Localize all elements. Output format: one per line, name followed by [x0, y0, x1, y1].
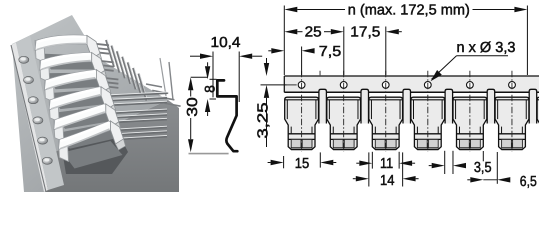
photo: lead group 1: [91, 43, 109, 45]
photo: lead group 4: [105, 93, 167, 96]
centreline clip 5: [469, 71, 471, 152]
svg-text:10,4: 10,4: [211, 35, 241, 51]
photo: rivet band: [16, 36, 64, 191]
photo: comb tail pins: [146, 84, 162, 87]
connector tab 1: [319, 89, 327, 123]
clip 3 outline: [369, 97, 403, 149]
clip 4 foot cells: [417, 139, 427, 148]
photo: plate top face: [12, 15, 168, 192]
svg-text:14: 14: [380, 173, 395, 189]
clip 7 outline: [537, 97, 539, 149]
clip 1 outline: [285, 97, 319, 149]
svg-text:3,5: 3,5: [474, 160, 492, 176]
svg-text:6,5: 6,5: [520, 174, 537, 190]
clip 6 outline: [495, 97, 529, 149]
clip 4 fold and edge lines: [411, 99, 445, 101]
dimension 6,5: [482, 151, 484, 161]
clip 4 outline: [411, 97, 445, 149]
hole 6 (Ø 3,3): [509, 82, 516, 89]
svg-text:25: 25: [305, 25, 322, 41]
photo: clip 2: [40, 60, 50, 82]
hole 5 (Ø 3,3): [467, 82, 474, 89]
clip 7 fold and edge lines: [537, 99, 539, 101]
dimension 15: [283, 156, 285, 168]
photo: plate front face: [46, 100, 179, 192]
svg-text:n x Ø 3,3: n x Ø 3,3: [457, 40, 516, 56]
photo: clip shadow 2: [44, 73, 104, 90]
hole 2 (Ø 3,3): [340, 82, 347, 89]
clip 5 outline: [453, 97, 487, 149]
centreline clip 1: [301, 71, 303, 152]
svg-text:n (max. 172,5 mm): n (max. 172,5 mm): [348, 3, 470, 19]
photo: rivet 4: [33, 117, 43, 124]
pcb ground line: [189, 153, 229, 155]
svg-text:7,5: 7,5: [319, 44, 342, 60]
dimension 14: [368, 152, 370, 186]
clip 3 fold and edge lines: [369, 99, 403, 101]
dimension 17,5: [386, 29, 399, 34]
clip 1 fold and edge lines: [285, 99, 319, 101]
photo: clip shadow 1: [39, 54, 99, 70]
photo: stray pins right: [169, 62, 173, 100]
hole 4 (Ø 3,3): [424, 82, 431, 89]
svg-text:15: 15: [295, 156, 310, 172]
photo: clip 5: [54, 120, 64, 142]
photo: lead group 6: [115, 127, 168, 130]
centreline clip 3: [385, 71, 387, 152]
photo: rivet 3: [28, 97, 38, 104]
svg-text:17,5: 17,5: [350, 25, 380, 41]
photo: rivet 5: [38, 137, 48, 144]
dimension 7,5: [301, 47, 303, 76]
dimension 10,4: [212, 52, 214, 98]
clip 2 foot cells: [333, 139, 343, 148]
dimension n (max. 172,5 mm): [283, 6, 285, 76]
photo: lead group 2: [96, 60, 114, 62]
clip 2 fold and edge lines: [327, 99, 361, 101]
clip side profile: [217, 80, 237, 151]
photo: lead group 3: [100, 78, 118, 80]
unit cut mark: [319, 71, 321, 75]
mounting rail strip: [284, 76, 539, 92]
connector tab 2: [361, 89, 369, 123]
centreline clip 4: [427, 71, 429, 152]
svg-text:30: 30: [185, 97, 201, 117]
photo: clip shadow 3: [48, 90, 108, 109]
clip 5 foot cells: [460, 139, 470, 148]
photo: clip 6: [59, 140, 69, 162]
svg-text:3,25: 3,25: [255, 103, 271, 139]
photo: clip shadow 5: [58, 124, 118, 149]
photo: clip 1: [35, 41, 45, 63]
clip 1 foot cells: [291, 139, 301, 148]
hole 3 (Ø 3,3): [382, 82, 389, 89]
photo: bent lead comb: [106, 40, 114, 67]
dimension 30: [191, 76, 208, 78]
photo: clip shadow 6: [63, 141, 123, 169]
photo: clip 3: [44, 80, 54, 102]
dimension 25: [343, 27, 345, 76]
photo: deep shadow under bottom clip: [62, 132, 128, 174]
connector tab 5: [487, 89, 495, 123]
svg-text:11: 11: [380, 156, 393, 172]
photo: clip shadow 4: [53, 107, 113, 129]
clip 3 foot cells: [375, 139, 385, 148]
dimension 8: [205, 66, 210, 79]
hole 1 (Ø 3,3): [298, 82, 305, 89]
connector tab 4: [445, 89, 453, 123]
clip 6 fold and edge lines: [495, 99, 529, 101]
svg-text:8: 8: [201, 85, 217, 93]
photo: rivet 2: [24, 77, 34, 84]
clip 2 outline: [327, 97, 361, 149]
photo: lead group 5: [110, 110, 167, 113]
dimension 11: [371, 152, 373, 169]
clip 5 fold and edge lines: [453, 99, 487, 101]
centreline clip 2: [343, 71, 345, 152]
hole centreline stub: [286, 84, 297, 86]
dimension 3,5: [444, 151, 446, 174]
photo: clip 4: [49, 100, 59, 122]
connector tab 3: [403, 89, 411, 123]
photo: plate left rim: [11, 43, 48, 193]
clip 6 foot cells: [502, 139, 512, 148]
connector tab 6: [529, 89, 537, 123]
dimension 3,25: [261, 84, 287, 86]
centreline clip 6: [511, 71, 513, 152]
photo: rivet 1: [19, 56, 29, 63]
photo: rivet 6: [42, 157, 52, 164]
